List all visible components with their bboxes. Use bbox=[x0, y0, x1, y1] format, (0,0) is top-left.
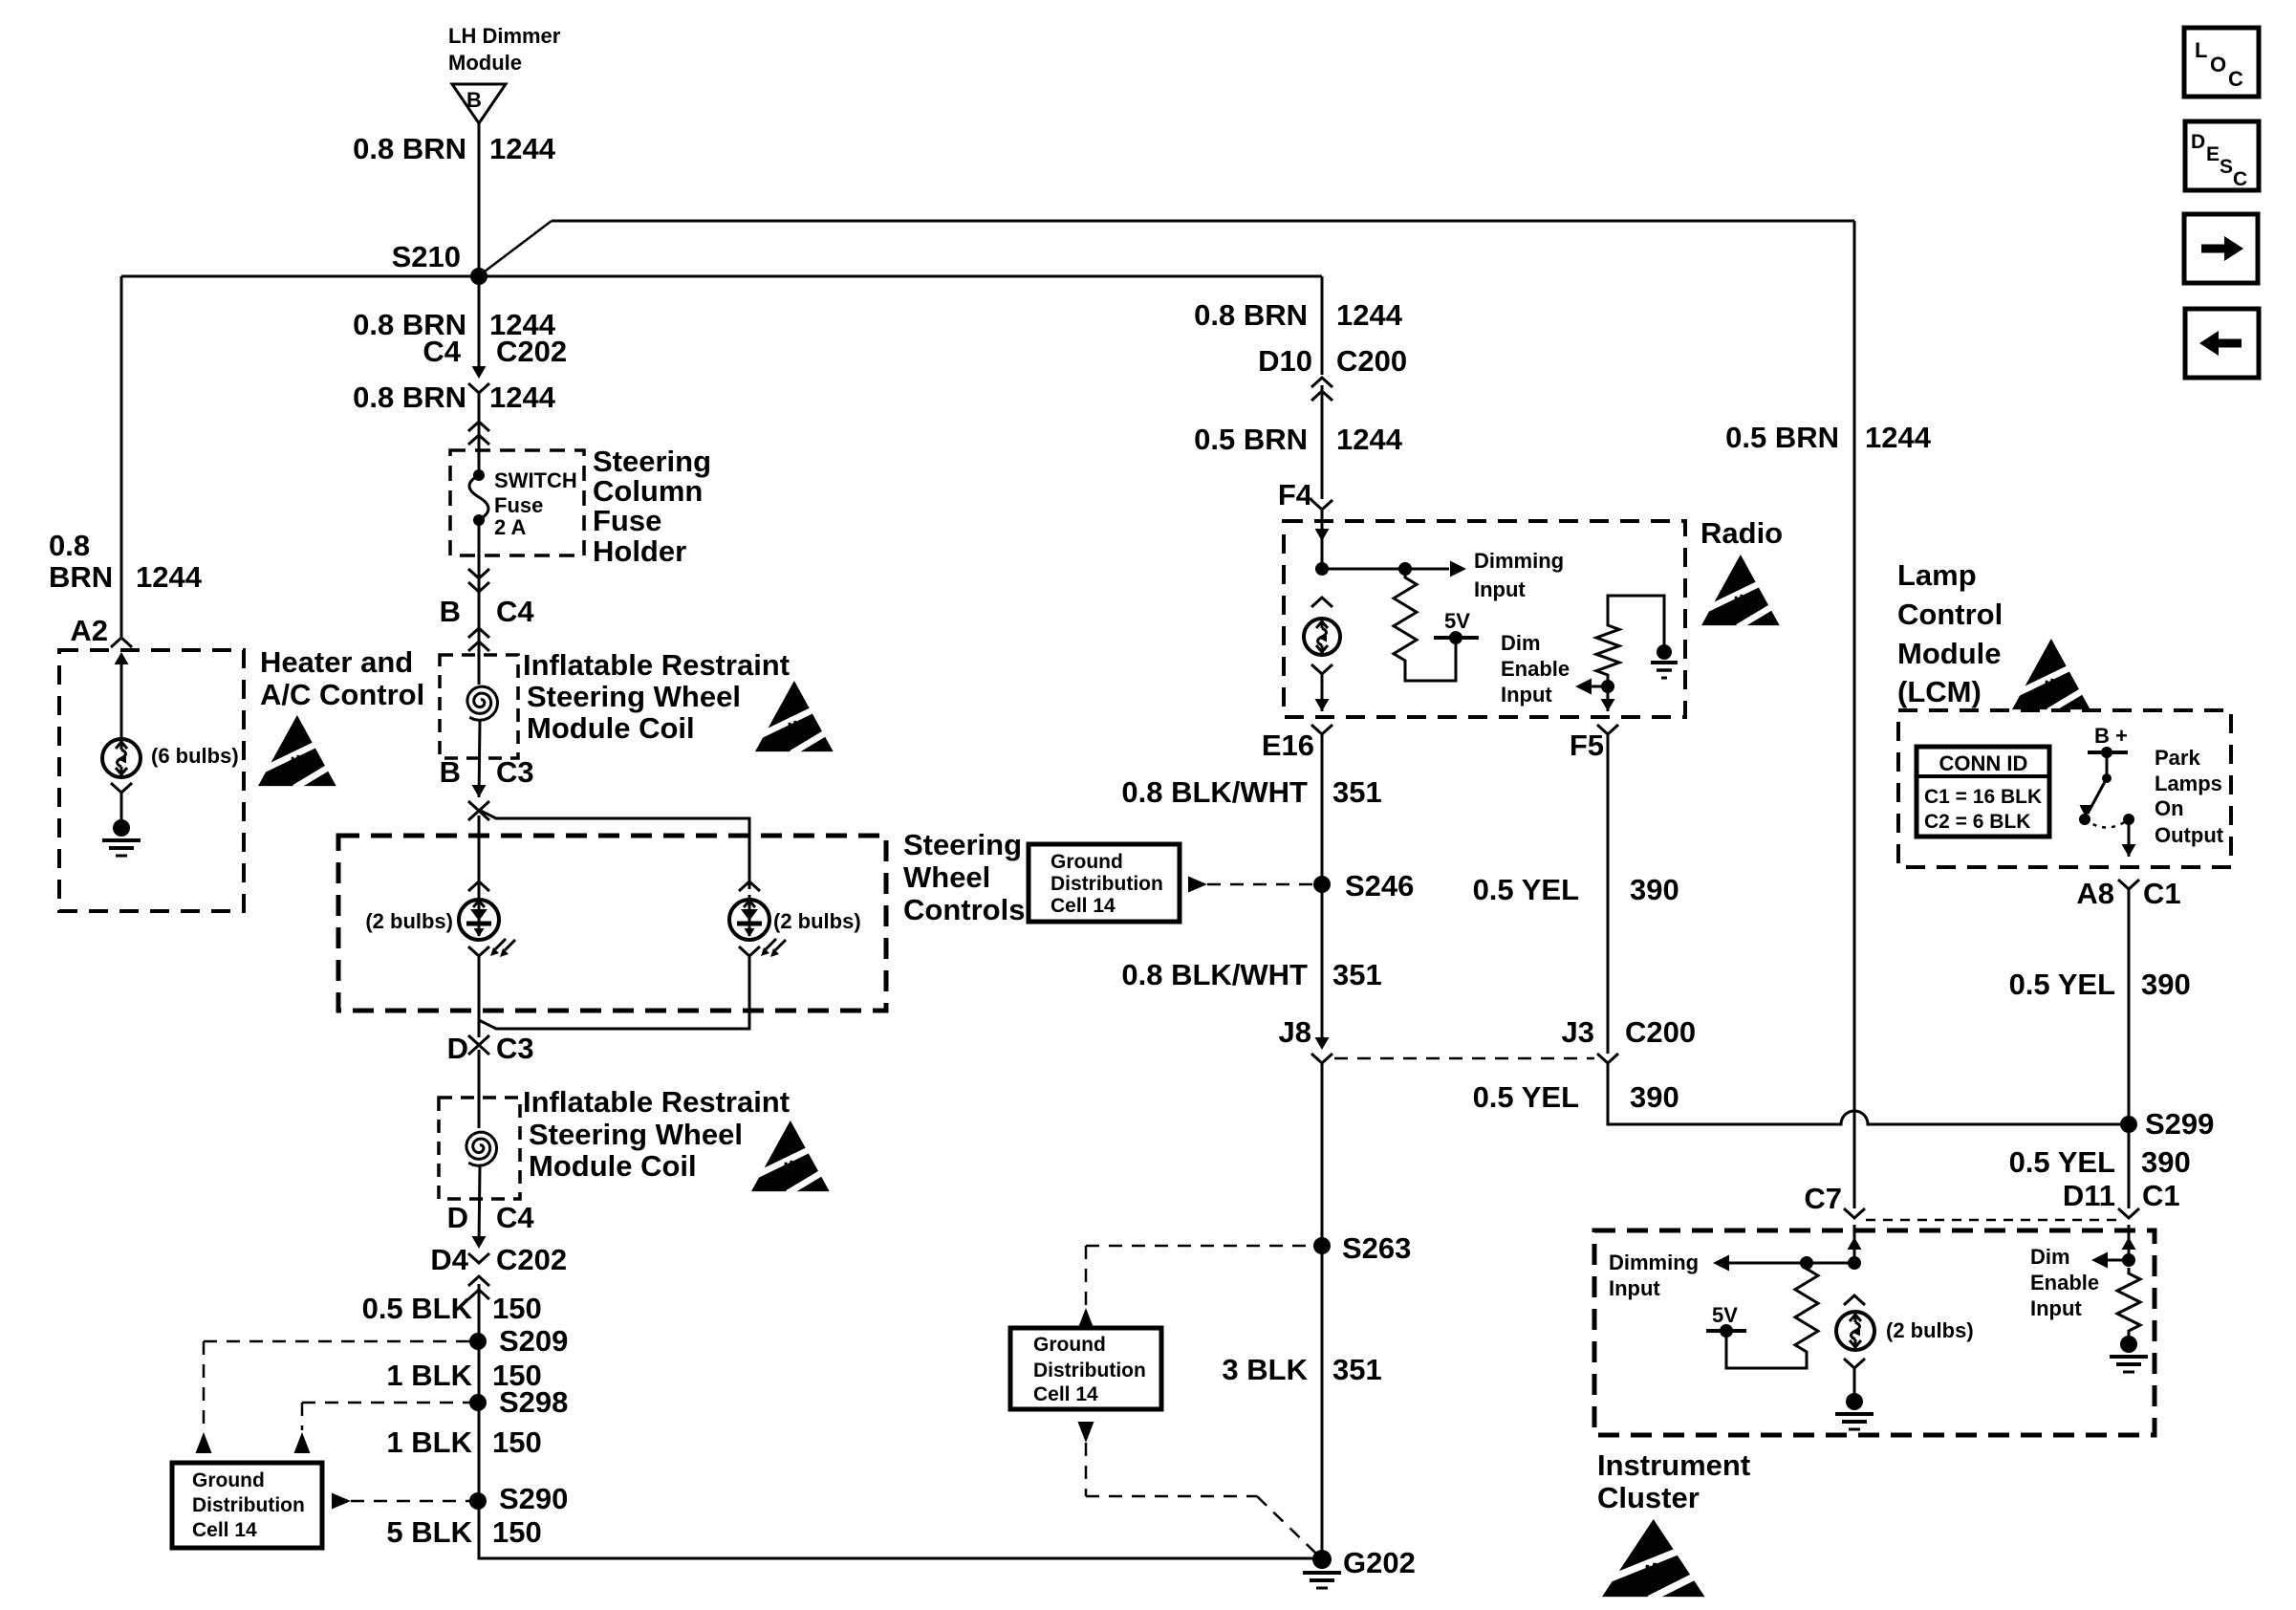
wire into fuse holder bbox=[478, 392, 481, 475]
svg-text:1244: 1244 bbox=[1336, 423, 1403, 456]
svg-text:0.5 YEL: 0.5 YEL bbox=[1473, 873, 1579, 906]
svg-text:Wheel: Wheel bbox=[903, 860, 990, 894]
svg-text:1244: 1244 bbox=[1865, 421, 1932, 454]
svg-text:0.5 YEL: 0.5 YEL bbox=[1473, 1080, 1579, 1114]
clockspring spiral coil 1 bbox=[467, 686, 498, 720]
legend forward arrow box bbox=[2184, 214, 2258, 283]
wire label 0.8 BRN 1244 (dimmer feed) bbox=[353, 132, 556, 165]
wire diagonal from S210 to upper bus bbox=[481, 221, 552, 274]
cluster illumination lamp (2 bulbs) bbox=[1836, 1312, 1874, 1350]
wire down to ground splices bbox=[478, 1284, 481, 1558]
dashed link J8 to J3 bbox=[1334, 1057, 1594, 1060]
svg-text:Enable: Enable bbox=[2030, 1271, 2099, 1295]
chevron above left bulb bbox=[468, 881, 489, 891]
label Dimming Input (cluster) bbox=[1609, 1251, 1699, 1300]
svg-text:C4: C4 bbox=[496, 1201, 534, 1234]
wire D10 to F4 bbox=[1321, 385, 1324, 499]
connector D4 C202 label bbox=[430, 1243, 567, 1276]
svg-text:(6 bulbs): (6 bulbs) bbox=[151, 744, 239, 768]
connector D C4 label bbox=[447, 1201, 535, 1234]
label Steering Wheel Controls bbox=[903, 828, 1025, 926]
svg-text:Instrument: Instrument bbox=[1597, 1448, 1750, 1482]
svg-text:Lamp: Lamp bbox=[1897, 558, 1977, 592]
label Dim Enable Input (radio) bbox=[1501, 631, 1570, 707]
svg-text:Park: Park bbox=[2155, 746, 2200, 770]
svg-text:B: B bbox=[440, 595, 461, 628]
svg-text:Inflatable Restraint: Inflatable Restraint bbox=[523, 648, 790, 682]
svg-text:Enable: Enable bbox=[1501, 657, 1570, 681]
svg-text:C3: C3 bbox=[496, 755, 534, 789]
wire left bulb down to D C3 bbox=[478, 955, 481, 1037]
dashed ref from mid ground box to G202 bbox=[1086, 1443, 1316, 1554]
wire coil 2 down to D C4 bbox=[479, 1166, 480, 1245]
svg-text:0.8: 0.8 bbox=[49, 529, 90, 562]
node S298 splice bbox=[469, 1385, 568, 1419]
wire cluster lamp to ground bbox=[1853, 1367, 1856, 1394]
LCM dashed box bbox=[1898, 710, 2231, 867]
dashed ref from S298 to ground distribution bbox=[302, 1403, 470, 1430]
coil box 1 dashed outline bbox=[440, 655, 518, 758]
svg-text:E16: E16 bbox=[1262, 729, 1314, 762]
wire heater lamp to ground bbox=[120, 793, 123, 820]
wire label 0.8 BLK/WHT 351 (upper) bbox=[1121, 775, 1381, 809]
node S209 splice bbox=[469, 1324, 568, 1358]
wire label 0.8 BRN 1244 (below S210) bbox=[353, 308, 556, 341]
wire J3 down and right to S299 with hop bbox=[1608, 1063, 2129, 1124]
wire upper bus to right column bbox=[552, 220, 1854, 223]
connector double chevron below fuse box bbox=[468, 569, 489, 592]
svg-text:O: O bbox=[2210, 53, 2226, 76]
svg-text:1244: 1244 bbox=[136, 560, 203, 594]
svg-text:150: 150 bbox=[492, 1515, 542, 1549]
wire cluster dimming entry with arrow bbox=[1848, 1225, 1862, 1263]
svg-text:C: C bbox=[2228, 67, 2243, 91]
svg-text:D10: D10 bbox=[1258, 344, 1312, 378]
svg-text:Control: Control bbox=[1897, 598, 2003, 631]
CONN ID table bbox=[1917, 747, 2049, 837]
chevron below right bulb bbox=[739, 946, 760, 956]
wire E16 down to S246 bbox=[1321, 734, 1324, 1042]
svg-text:(2 bulbs): (2 bulbs) bbox=[773, 909, 861, 933]
illumination lamp (6 bulbs) heater bbox=[102, 739, 141, 777]
wire bottom run to G202 bbox=[479, 1555, 1322, 1558]
wire LH dimmer module down to S210 bbox=[478, 123, 481, 276]
5V supply bar (radio) bbox=[1434, 609, 1479, 644]
connector double chevron below D4 C202 bbox=[468, 1276, 489, 1299]
legend DESC box bbox=[2185, 121, 2259, 190]
svg-text:On: On bbox=[2155, 796, 2184, 820]
svg-text:B: B bbox=[466, 88, 482, 112]
wire label 3 BLK 351 bbox=[1222, 1353, 1381, 1386]
svg-text:S299: S299 bbox=[2145, 1107, 2214, 1141]
svg-text:Steering Wheel: Steering Wheel bbox=[529, 1118, 743, 1151]
svg-text:Cluster: Cluster bbox=[1597, 1481, 1700, 1514]
svg-text:D11: D11 bbox=[2063, 1179, 2115, 1212]
svg-text:390: 390 bbox=[1630, 873, 1679, 906]
fuse SWITCH Fuse 2 A symbol bbox=[469, 469, 488, 526]
svg-text:Dimming: Dimming bbox=[1609, 1251, 1699, 1274]
svg-text:C1: C1 bbox=[2142, 1179, 2180, 1212]
resistor radio R1 bbox=[1394, 572, 1417, 666]
svg-text:S246: S246 bbox=[1345, 869, 1414, 903]
connector B C4 label bbox=[440, 595, 535, 628]
connector symbol D C3 (X chevrons) bbox=[468, 1035, 489, 1055]
svg-text:Input: Input bbox=[1609, 1276, 1660, 1300]
wire label 0.5 BLK 150 bbox=[362, 1292, 542, 1325]
svg-text:Input: Input bbox=[2030, 1296, 2082, 1320]
radio dashed box bbox=[1284, 521, 1685, 717]
svg-text:0.5 YEL: 0.5 YEL bbox=[2009, 968, 2115, 1001]
label LH Dimmer Module bbox=[448, 24, 561, 75]
svg-text:J3: J3 bbox=[1562, 1015, 1594, 1049]
svg-text:C202: C202 bbox=[496, 335, 567, 368]
svg-text:Cell 14: Cell 14 bbox=[1033, 1383, 1098, 1405]
svg-text:Holder: Holder bbox=[593, 534, 686, 568]
wire label 0.5 YEL 390 (below S299) bbox=[2009, 1145, 2191, 1179]
svg-text:Ground: Ground bbox=[192, 1469, 265, 1491]
ground symbol cluster lamp bbox=[1835, 1393, 1874, 1429]
svg-text:D4: D4 bbox=[430, 1243, 468, 1276]
chevron below radio lamp bbox=[1311, 664, 1332, 674]
ground distribution cell 14 box (steering) bbox=[1029, 844, 1180, 922]
svg-text:0.8 BRN: 0.8 BRN bbox=[353, 132, 466, 165]
connector J3 C200 label and chevron bbox=[1562, 1015, 1697, 1063]
terminal B triangle (LH Dimmer Module) bbox=[452, 84, 506, 123]
wire label 0.8 BRN 1244 (heater feed) bbox=[49, 529, 203, 594]
svg-text:Distribution: Distribution bbox=[1033, 1360, 1146, 1382]
svg-text:1244: 1244 bbox=[489, 132, 556, 165]
wire label 0.5 YEL 390 (A8) bbox=[2009, 968, 2191, 1001]
resistor cluster R3 bbox=[1795, 1263, 1818, 1358]
svg-text:2 A: 2 A bbox=[494, 515, 527, 539]
wire main horizontal bus at S210 bbox=[121, 275, 1322, 278]
svg-text:Distribution: Distribution bbox=[192, 1494, 305, 1516]
svg-text:Steering: Steering bbox=[903, 828, 1022, 861]
svg-text:Dimming: Dimming bbox=[1474, 549, 1564, 573]
wire right bulb return to main bbox=[479, 955, 749, 1029]
svg-text:Fuse: Fuse bbox=[494, 493, 543, 517]
ground symbol inside heater box bbox=[113, 819, 130, 837]
svg-text:Ground: Ground bbox=[1051, 851, 1123, 873]
svg-text:5 BLK: 5 BLK bbox=[386, 1515, 472, 1549]
wire centre column from bus down to radio bbox=[1321, 276, 1324, 375]
svg-text:L: L bbox=[2195, 38, 2207, 62]
wire label 1 BLK 150 (lower) bbox=[386, 1425, 541, 1459]
wire left bus down to heater control bbox=[120, 276, 123, 637]
svg-text:0.5 BLK: 0.5 BLK bbox=[362, 1292, 473, 1325]
wire A8 down to S299 bbox=[2128, 889, 2131, 1124]
connector J8 label arrow chevron bbox=[1279, 1015, 1332, 1063]
svg-text:C: C bbox=[2233, 168, 2247, 190]
lamp left (2 bulbs) bbox=[459, 900, 499, 940]
svg-text:A8: A8 bbox=[2076, 877, 2114, 910]
connector symbol C202 (arrow into chevron) bbox=[468, 276, 489, 393]
ESD symbol (upper coil) bbox=[755, 681, 837, 753]
svg-text:5V: 5V bbox=[1712, 1303, 1738, 1327]
wire label 5 BLK 150 bbox=[386, 1515, 541, 1549]
svg-text:Fuse: Fuse bbox=[593, 504, 661, 537]
connector double chevron above fuse box bbox=[468, 422, 489, 445]
wire D C3 to coil 2 bbox=[478, 1050, 481, 1128]
ground G202 bbox=[1303, 1546, 1416, 1588]
svg-text:Module Coil: Module Coil bbox=[527, 711, 695, 745]
wire radio lamp to E16 with arrow bbox=[1315, 673, 1330, 711]
svg-text:Cell 14: Cell 14 bbox=[192, 1519, 257, 1541]
connector C4 C202 label bbox=[422, 335, 567, 368]
svg-text:0.8 BLK/WHT: 0.8 BLK/WHT bbox=[1121, 958, 1308, 991]
connector E16 label and chevron bbox=[1262, 725, 1332, 762]
svg-text:Dim: Dim bbox=[1501, 631, 1541, 655]
instrument cluster dashed box bbox=[1594, 1230, 2155, 1435]
steering wheel controls dashed box bbox=[338, 836, 886, 1011]
wire label 0.5 BRN 1244 (right) bbox=[1725, 421, 1932, 454]
svg-text:390: 390 bbox=[1630, 1080, 1679, 1114]
svg-text:1 BLK: 1 BLK bbox=[386, 1425, 472, 1459]
lamp right (2 bulbs) bbox=[729, 900, 769, 940]
connector F5 label and chevron bbox=[1570, 725, 1618, 762]
connector double chevron D10 C200 bbox=[1311, 378, 1332, 401]
svg-text:BRN: BRN bbox=[49, 560, 113, 594]
connector F4 label and chevron bbox=[1278, 478, 1332, 511]
wire main through left bulb bbox=[478, 816, 481, 900]
svg-text:0.8 BRN: 0.8 BRN bbox=[1194, 298, 1308, 332]
svg-text:A2: A2 bbox=[70, 614, 108, 647]
svg-text:Column: Column bbox=[593, 474, 703, 508]
resistor radio R2 top hook to ground bbox=[1608, 596, 1664, 646]
svg-text:Lamps: Lamps bbox=[2155, 772, 2222, 795]
svg-text:0.5 BRN: 0.5 BRN bbox=[1725, 421, 1839, 454]
svg-text:C4: C4 bbox=[422, 335, 461, 368]
chevron below cluster lamp bbox=[1844, 1359, 1865, 1368]
wire cluster dim enable entry with arrow bbox=[2122, 1225, 2136, 1260]
wire fuse to coil connector bbox=[478, 520, 481, 631]
connector symbol D C4 (arrow into chevron) bbox=[468, 1236, 489, 1263]
fuse text SWITCH Fuse 2A bbox=[494, 468, 577, 539]
svg-text:Cell 14: Cell 14 bbox=[1051, 895, 1116, 917]
heater and A/C control dashed box bbox=[59, 650, 244, 911]
connector D C3 label bbox=[447, 1032, 534, 1065]
connector symbol B C3 (arrow and X chevrons) bbox=[468, 785, 489, 820]
wire F5 down to S299 run bbox=[1607, 734, 1610, 1054]
node radio dimming junction bbox=[1315, 562, 1329, 576]
arrow from ground box to S246 bbox=[1188, 877, 1313, 893]
svg-text:F4: F4 bbox=[1278, 478, 1313, 511]
wire dimming input with arrow bbox=[1322, 561, 1466, 577]
svg-text:C200: C200 bbox=[1336, 344, 1407, 378]
wire label 0.8 BRN 1244 (to fuse holder) bbox=[353, 381, 556, 414]
wire label 0.8 BRN 1244 (centre) bbox=[1194, 298, 1403, 332]
label Heater and A/C Control bbox=[260, 645, 424, 711]
triangle arrow ref S263 bbox=[1078, 1308, 1094, 1329]
svg-text:390: 390 bbox=[2141, 1145, 2191, 1179]
wire label 0.5 YEL 390 (F5 to J3) bbox=[1473, 873, 1679, 906]
svg-text:0.8 BRN: 0.8 BRN bbox=[353, 381, 466, 414]
chevron below left bulb bbox=[468, 946, 489, 956]
svg-text:Dim: Dim bbox=[2030, 1245, 2070, 1269]
svg-text:Input: Input bbox=[1501, 683, 1552, 707]
node S290 splice bbox=[469, 1482, 568, 1515]
wire right column 0.5 BRN down to C7 bbox=[1853, 221, 1856, 1208]
svg-text:S263: S263 bbox=[1342, 1231, 1411, 1265]
svg-text:3 BLK: 3 BLK bbox=[1222, 1353, 1308, 1386]
node S210 splice bbox=[392, 240, 487, 285]
fuse box (Steering Column Fuse Holder) dashed outline bbox=[450, 450, 584, 555]
ESD symbol (LCM) bbox=[2012, 639, 2094, 711]
label Park Lamps On Output bbox=[2155, 746, 2224, 847]
svg-text:C1 = 16 BLK: C1 = 16 BLK bbox=[1924, 786, 2042, 808]
clockspring spiral coil 2 bbox=[466, 1132, 497, 1165]
svg-text:D: D bbox=[2191, 131, 2205, 153]
svg-text:351: 351 bbox=[1332, 1353, 1382, 1386]
svg-text:0.5 YEL: 0.5 YEL bbox=[2009, 1145, 2115, 1179]
wire radio input with arrow bbox=[1315, 511, 1330, 569]
svg-text:F5: F5 bbox=[1570, 729, 1604, 762]
triangle arrow below mid ground box bbox=[1078, 1422, 1094, 1443]
svg-text:C7: C7 bbox=[1804, 1182, 1842, 1215]
svg-text:5V: 5V bbox=[1444, 609, 1470, 633]
connector symbol A2 (chevron and up arrow) bbox=[111, 638, 132, 739]
svg-text:S210: S210 bbox=[392, 240, 461, 273]
resistor radio R2 bbox=[1596, 620, 1619, 681]
connector D11 C1 label and chevron bbox=[2063, 1179, 2180, 1218]
svg-text:D: D bbox=[447, 1201, 468, 1234]
svg-text:A/C Control: A/C Control bbox=[260, 678, 424, 711]
svg-text:390: 390 bbox=[2141, 968, 2191, 1001]
connector double chevron above coil box bbox=[468, 628, 489, 651]
ground dot (radio R2) bbox=[1651, 644, 1678, 678]
svg-text:Controls: Controls bbox=[903, 893, 1025, 926]
wire R3 to 5V node (cluster) bbox=[1726, 1333, 1807, 1368]
radio illumination lamp bbox=[1304, 619, 1340, 655]
svg-text:1 BLK: 1 BLK bbox=[386, 1359, 472, 1392]
svg-text:150: 150 bbox=[492, 1292, 542, 1325]
dim enable arrow (radio) bbox=[1575, 679, 1614, 695]
chevron above cluster lamp bbox=[1844, 1295, 1865, 1305]
wire into coil 1 bbox=[478, 631, 481, 685]
resistor cluster R4 bbox=[2117, 1268, 2140, 1337]
wire label 1 BLK 150 (upper) bbox=[386, 1359, 541, 1392]
ESD symbol (radio) bbox=[1701, 555, 1784, 627]
svg-text:1244: 1244 bbox=[489, 381, 556, 414]
svg-text:Module: Module bbox=[1897, 637, 2002, 670]
arrow from left ground box to S290 bbox=[332, 1493, 470, 1510]
connector D10 C200 label bbox=[1258, 344, 1407, 378]
svg-text:(LCM): (LCM) bbox=[1897, 675, 1982, 708]
light emission arrows left bulb bbox=[495, 939, 506, 949]
label Dimming Input (radio) bbox=[1474, 549, 1564, 601]
connector A8 C1 label and chevron bbox=[2076, 877, 2180, 910]
chevron above right bulb bbox=[739, 881, 760, 891]
svg-text:Steering: Steering bbox=[593, 445, 711, 478]
svg-text:150: 150 bbox=[492, 1425, 542, 1459]
svg-text:Heater and: Heater and bbox=[260, 645, 413, 679]
triangle arrow ref S298 bbox=[294, 1432, 311, 1453]
wire label 0.5 BRN 1244 (centre) bbox=[1194, 423, 1403, 456]
svg-text:Output: Output bbox=[2155, 823, 2224, 847]
label Inflatable Restraint Steering Wheel Module Coil (lower) bbox=[523, 1085, 790, 1183]
svg-text:C3: C3 bbox=[496, 1032, 534, 1065]
label Dim Enable Input (cluster) bbox=[2030, 1245, 2099, 1320]
label Steering Column Fuse Holder bbox=[593, 445, 711, 568]
svg-text:0.8 BLK/WHT: 0.8 BLK/WHT bbox=[1121, 775, 1308, 809]
svg-text:Distribution: Distribution bbox=[1051, 873, 1163, 895]
wire coil 1 down to B C3 bbox=[479, 721, 480, 797]
light emission arrows right bulb bbox=[766, 939, 776, 949]
svg-text:S290: S290 bbox=[499, 1482, 568, 1515]
connector C7 label and chevron bbox=[1804, 1182, 1865, 1218]
svg-text:351: 351 bbox=[1332, 775, 1382, 809]
legend LOC box bbox=[2184, 28, 2259, 97]
ESD symbol (instrument cluster) bbox=[1602, 1519, 1710, 1599]
svg-text:S298: S298 bbox=[499, 1385, 568, 1419]
svg-text:E: E bbox=[2206, 143, 2220, 165]
node S299 splice bbox=[2120, 1107, 2214, 1141]
ESD symbol (heater) bbox=[258, 715, 340, 788]
svg-text:C2 = 6 BLK: C2 = 6 BLK bbox=[1924, 811, 2030, 833]
wire R2 to F5 with arrow bbox=[1601, 686, 1615, 711]
svg-text:B: B bbox=[440, 755, 461, 789]
wire label 0.8 BLK/WHT 351 (mid) bbox=[1121, 958, 1381, 991]
wire label 0.5 YEL 390 (below J3) bbox=[1473, 1080, 1679, 1114]
label Lamp Control Module LCM bbox=[1897, 558, 2003, 708]
legend back arrow box bbox=[2185, 309, 2259, 378]
svg-text:C1: C1 bbox=[2143, 877, 2181, 910]
label Inflatable Restraint Steering Wheel Module Coil (upper) bbox=[523, 648, 790, 745]
svg-text:351: 351 bbox=[1332, 958, 1382, 991]
svg-text:S: S bbox=[2220, 156, 2233, 178]
svg-text:(2 bulbs): (2 bulbs) bbox=[1886, 1318, 1974, 1342]
svg-text:D: D bbox=[447, 1032, 468, 1065]
wire J8 down to G202 bbox=[1321, 1063, 1324, 1558]
LCM park lamp switch bbox=[2079, 747, 2134, 828]
chevron above radio lamp bbox=[1311, 598, 1332, 607]
wire R1 to 5V node bbox=[1405, 640, 1456, 681]
svg-text:G202: G202 bbox=[1343, 1546, 1416, 1579]
svg-text:C200: C200 bbox=[1625, 1015, 1696, 1049]
svg-text:CONN ID: CONN ID bbox=[1939, 751, 2028, 775]
svg-text:Input: Input bbox=[1474, 577, 1526, 601]
node S263 splice bbox=[1313, 1231, 1411, 1265]
wire S299 down to D11 bbox=[2128, 1124, 2131, 1208]
triangle arrow ref S209 bbox=[196, 1432, 212, 1453]
ground symbol cluster dim enable bbox=[2110, 1336, 2148, 1372]
svg-text:B +: B + bbox=[2094, 724, 2128, 748]
wire cluster dimming rail with arrow bbox=[1713, 1255, 1861, 1272]
label Instrument Cluster bbox=[1597, 1448, 1750, 1514]
svg-text:LH Dimmer: LH Dimmer bbox=[448, 24, 561, 48]
svg-text:C4: C4 bbox=[496, 595, 534, 628]
wire branch to right bulb (top) bbox=[479, 810, 749, 889]
dim enable arrow (cluster) bbox=[2091, 1252, 2135, 1269]
5V supply bar (cluster) bbox=[1706, 1303, 1746, 1338]
coil box 2 dashed outline bbox=[439, 1098, 520, 1199]
connector B C3 label bbox=[440, 755, 534, 789]
node S246 splice bbox=[1313, 869, 1414, 903]
svg-text:Module Coil: Module Coil bbox=[529, 1149, 697, 1183]
svg-text:Steering Wheel: Steering Wheel bbox=[527, 680, 741, 713]
wire park lamp output with arrow bbox=[2122, 819, 2136, 857]
dashed ref from S263 to mid ground box bbox=[1086, 1246, 1313, 1306]
ESD symbol (lower coil) bbox=[751, 1120, 834, 1193]
svg-text:1244: 1244 bbox=[1336, 298, 1403, 332]
svg-text:Module: Module bbox=[448, 51, 522, 75]
svg-text:S209: S209 bbox=[499, 1324, 568, 1358]
svg-text:Ground: Ground bbox=[1033, 1334, 1106, 1356]
svg-text:J8: J8 bbox=[1279, 1015, 1311, 1049]
ground distribution cell 14 box (mid) bbox=[1010, 1328, 1161, 1409]
ground distribution cell 14 box (left) bbox=[172, 1463, 322, 1548]
svg-text:0.5 BRN: 0.5 BRN bbox=[1194, 423, 1308, 456]
